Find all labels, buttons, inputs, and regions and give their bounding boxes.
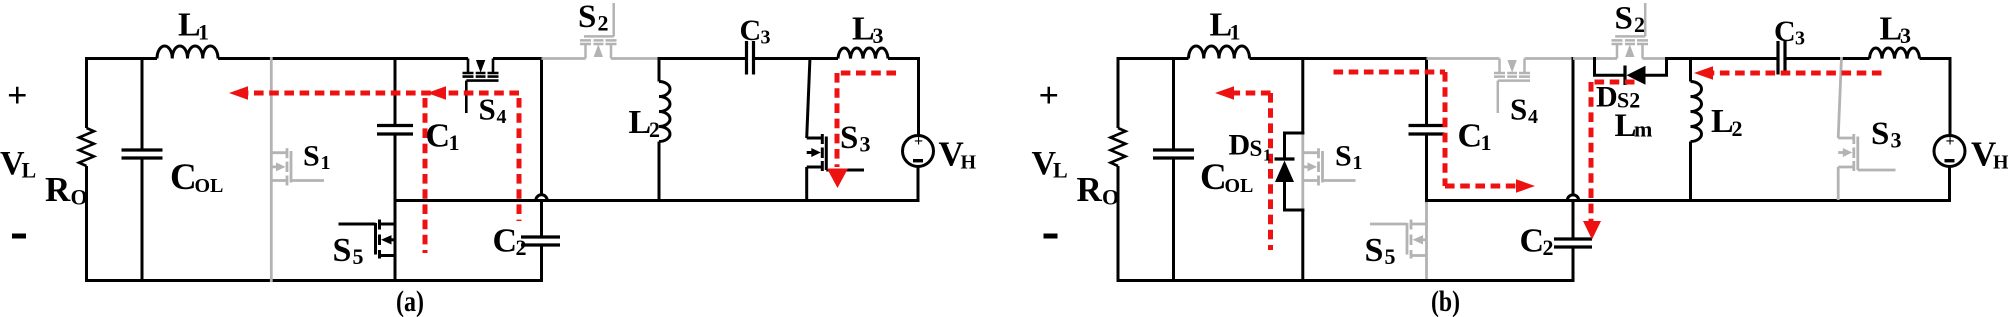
inductor L2 (b) xyxy=(1691,82,1702,142)
svg-text:C: C xyxy=(740,14,762,47)
wire C3 to L3 (a) xyxy=(754,57,839,60)
svg-text:4: 4 xyxy=(497,106,507,128)
svg-text:1: 1 xyxy=(1230,20,1241,45)
wire S1 source black (b) xyxy=(1301,209,1304,283)
wire left rail top segment (a) xyxy=(85,57,88,128)
svg-text:2: 2 xyxy=(649,117,660,142)
svg-text:1: 1 xyxy=(449,130,460,155)
svg-text:H: H xyxy=(961,152,977,174)
arrowhead left at L1 (a) xyxy=(229,86,248,100)
wire diode DS2 bypass right (b) xyxy=(1646,57,1667,75)
label minus (b) xyxy=(1044,234,1058,239)
svg-text:2: 2 xyxy=(598,11,609,36)
wire L2 branch (b) xyxy=(1689,57,1692,202)
svg-text:5: 5 xyxy=(353,244,364,269)
svg-text:C: C xyxy=(1774,15,1796,48)
transistor S1 gray (b) xyxy=(1303,148,1356,185)
svg-text:S: S xyxy=(1250,136,1263,161)
wire left rail bottom segment (b) xyxy=(1117,166,1120,282)
transistor S4 (a) xyxy=(463,59,499,114)
wire gray S2 segment right (a) xyxy=(611,57,660,60)
inductor L3 (a) xyxy=(838,48,888,58)
capacitor C1 (a) xyxy=(377,126,413,135)
svg-text:3: 3 xyxy=(860,132,871,157)
wire middle node (b) xyxy=(1427,199,1950,202)
wire top L2 to C3 (a) xyxy=(659,57,747,60)
svg-text:C: C xyxy=(1200,157,1227,198)
transistor S5 gray (b) xyxy=(1370,220,1427,259)
wire gray S2 segment left (a) xyxy=(542,57,586,60)
current path red arrows (b) xyxy=(1234,72,1882,250)
svg-text:4: 4 xyxy=(1528,106,1538,128)
svg-text:S: S xyxy=(1335,140,1352,173)
inductor L2 (a) xyxy=(659,82,670,142)
wire top black after DS2 (b) xyxy=(1665,57,1778,60)
current path C1 vertical (b) xyxy=(1443,72,1448,186)
current path S5 loop vertical (a) xyxy=(423,98,428,253)
svg-text:OL: OL xyxy=(195,175,224,197)
svg-text:+: + xyxy=(1946,133,1955,150)
svg-text:3: 3 xyxy=(761,27,771,49)
current path S3 horizontal (a) xyxy=(838,71,896,76)
wire gray S5 branch (b) xyxy=(1425,202,1428,282)
capacitor C2 (b) xyxy=(1554,239,1592,247)
wire left rail bottom segment (a) xyxy=(85,166,88,282)
wire top middle (a) xyxy=(218,57,468,60)
svg-text:(b): (b) xyxy=(1431,285,1460,317)
svg-text:1: 1 xyxy=(1353,152,1363,174)
capacitor C3 (b) xyxy=(1778,41,1785,75)
current path S5 loop horizontal (a) xyxy=(248,91,446,96)
resistor RO (b) xyxy=(1111,128,1126,166)
label minus (a) xyxy=(12,234,26,239)
svg-text:+: + xyxy=(7,75,28,115)
wire C1 branch (a) xyxy=(394,57,397,282)
current path DS2 horizontal (b) xyxy=(1591,80,1635,85)
source VH circle (a) xyxy=(903,136,934,167)
wire S4 to rail (a) xyxy=(493,57,543,60)
wire gray S2 segment right (b) xyxy=(1643,57,1669,60)
source VH circle (b) xyxy=(1934,136,1965,167)
wire bottom (b) xyxy=(1117,279,1575,282)
svg-text:L: L xyxy=(1711,103,1734,140)
svg-text:C: C xyxy=(170,157,197,198)
svg-text:S: S xyxy=(479,92,496,127)
svg-text:3: 3 xyxy=(1891,128,1902,153)
svg-text:2: 2 xyxy=(516,235,527,260)
wire right rail upper (a) xyxy=(540,57,543,195)
wire L2 branch (a) xyxy=(658,57,661,201)
wire right rail to C2 (a) xyxy=(540,201,543,283)
transistor S3 (a) xyxy=(807,134,864,171)
label minus inside VH (a) xyxy=(913,159,923,162)
wire crossover hop (b) xyxy=(1567,195,1578,201)
current path DS2 vertical (b) xyxy=(1589,82,1594,221)
wire C3 to L3 (b) xyxy=(1785,57,1870,60)
wire gray S4 to rail (b) xyxy=(1525,57,1575,60)
wire right rail to C2 (b) xyxy=(1572,201,1575,283)
svg-text:3: 3 xyxy=(1900,23,1911,48)
current path red arrows (a) xyxy=(248,73,896,253)
svg-text:S: S xyxy=(840,120,858,156)
svg-text:1: 1 xyxy=(321,152,331,174)
transistor S1 gray (a) xyxy=(271,148,324,185)
diode DS1 (b) xyxy=(1275,157,1295,160)
diode DS2 (b) xyxy=(1623,66,1626,86)
svg-text:O: O xyxy=(71,185,88,210)
current path C2 loop horizontal (a) xyxy=(446,91,519,96)
svg-text:R: R xyxy=(1077,170,1103,209)
wire gray S3 source (b) xyxy=(1837,167,1840,200)
svg-text:C: C xyxy=(493,223,518,260)
current path C1 horizontal top (b) xyxy=(1334,70,1446,75)
svg-text:L: L xyxy=(22,158,37,183)
wire S3 source (a) xyxy=(805,167,808,202)
wire gray S2 segment left (b) xyxy=(1573,57,1617,60)
arrowhead left at C1 (a) xyxy=(427,86,446,100)
svg-text:L: L xyxy=(852,11,875,48)
wire jog to diode DS1 top (b) xyxy=(1285,133,1305,159)
wire crossover hop (a) xyxy=(536,195,547,201)
svg-text:S: S xyxy=(1871,116,1889,152)
resistor RO (a) xyxy=(79,128,94,166)
wire right rail upper (b) xyxy=(1572,57,1575,195)
svg-text:S: S xyxy=(1365,232,1384,269)
arrowhead left at L1 (b) xyxy=(1215,86,1234,100)
svg-text:+: + xyxy=(1039,75,1060,115)
svg-text:S: S xyxy=(578,0,596,35)
capacitor C1 (b) xyxy=(1409,126,1445,135)
svg-text:C: C xyxy=(1458,118,1483,155)
wire top middle (b) xyxy=(1250,57,1427,60)
wire top left (a) xyxy=(85,57,157,60)
svg-text:2: 2 xyxy=(1732,116,1743,141)
wire diode DS2 bypass left (b) xyxy=(1595,57,1627,75)
svg-text:C: C xyxy=(1520,223,1545,260)
svg-text:m: m xyxy=(1634,117,1652,142)
svg-text:S: S xyxy=(1510,92,1527,127)
wire S3 drain (a) xyxy=(807,57,810,138)
labels circuit (a) xyxy=(0,0,977,317)
capacitor C3 (a) xyxy=(747,41,754,75)
svg-text:O: O xyxy=(1102,185,1119,210)
current path S3 vertical (a) xyxy=(835,73,840,167)
transistor S4 gray (b) xyxy=(1494,59,1530,114)
inductor L1 (a) xyxy=(157,46,218,59)
transistor S2 gray (a) xyxy=(580,3,617,59)
wire middle node (a) xyxy=(395,199,918,202)
arrowhead down at C2 (b) xyxy=(1583,221,1601,240)
svg-text:3: 3 xyxy=(1795,28,1805,50)
capacitor COL (a) xyxy=(122,150,163,158)
arrowhead down at S3 (a) xyxy=(827,169,848,189)
current path DS1 horizontal (b) xyxy=(1234,91,1271,96)
current path DS1 vertical (b) xyxy=(1268,93,1273,250)
wire L3 to VH (b) xyxy=(1920,59,1951,136)
wire C1 branch black (b) xyxy=(1425,57,1428,202)
svg-text:OL: OL xyxy=(1225,175,1254,197)
svg-text:R: R xyxy=(45,170,71,209)
svg-text:2: 2 xyxy=(1543,235,1554,260)
wire VH bottom (a) xyxy=(917,167,920,203)
svg-text:+: + xyxy=(914,133,923,150)
wire top left (b) xyxy=(1117,57,1189,60)
wire COL branch (a) xyxy=(141,57,144,282)
transistor S2 gray (b) xyxy=(1612,3,1649,59)
svg-text:(a): (a) xyxy=(396,285,424,317)
capacitor COL (b) xyxy=(1153,150,1194,158)
svg-text:1: 1 xyxy=(198,20,209,45)
wire gray S3 drain (b) xyxy=(1838,57,1841,138)
svg-text:H: H xyxy=(1993,152,2008,174)
inductor L1 (b) xyxy=(1189,46,1250,59)
transistor S5 (a) xyxy=(339,220,396,259)
wire gray S1 drain-source (a) xyxy=(270,57,273,282)
svg-text:3: 3 xyxy=(873,23,884,48)
wire L3 to VH (a) xyxy=(888,59,919,136)
wire left rail top segment (b) xyxy=(1117,57,1120,128)
arrowhead right at C2 rail (b) xyxy=(1516,179,1535,193)
svg-text:S: S xyxy=(333,232,352,269)
wire bottom (a) xyxy=(85,279,543,282)
wire S1 drain black (b) xyxy=(1301,57,1304,135)
inductor L3 (b) xyxy=(1870,48,1920,58)
wire VH bottom (b) xyxy=(1948,167,1951,203)
wire gray top S4 segment (b) xyxy=(1427,57,1500,60)
svg-text:S: S xyxy=(303,140,320,173)
svg-text:L: L xyxy=(629,104,652,141)
label minus inside VH (b) xyxy=(1945,159,1955,162)
svg-text:C: C xyxy=(426,118,451,155)
arrowhead left at L2 (b) xyxy=(1694,66,1713,80)
wire diode DS1 anode (b) xyxy=(1285,182,1305,210)
wire COL branch (b) xyxy=(1172,57,1175,282)
svg-text:2: 2 xyxy=(1634,12,1645,37)
labels circuit (b) xyxy=(1032,1,2008,317)
svg-text:S: S xyxy=(1615,1,1633,37)
current path C2 loop vertical (a) xyxy=(517,98,522,221)
transistor S3 gray (b) xyxy=(1838,134,1895,171)
wire gray S1 middle segment (b) xyxy=(1301,135,1304,209)
svg-text:1: 1 xyxy=(1481,130,1492,155)
svg-text:L: L xyxy=(1053,158,1068,183)
current path C1 horizontal bottom (b) xyxy=(1445,184,1516,189)
svg-text:1: 1 xyxy=(1263,146,1272,165)
capacitor C2 (a) xyxy=(521,237,560,245)
svg-text:5: 5 xyxy=(1385,244,1396,269)
svg-text:L: L xyxy=(1880,11,1903,48)
current path L3 horizontal (b) xyxy=(1713,71,1882,76)
svg-text:D: D xyxy=(1229,129,1251,162)
